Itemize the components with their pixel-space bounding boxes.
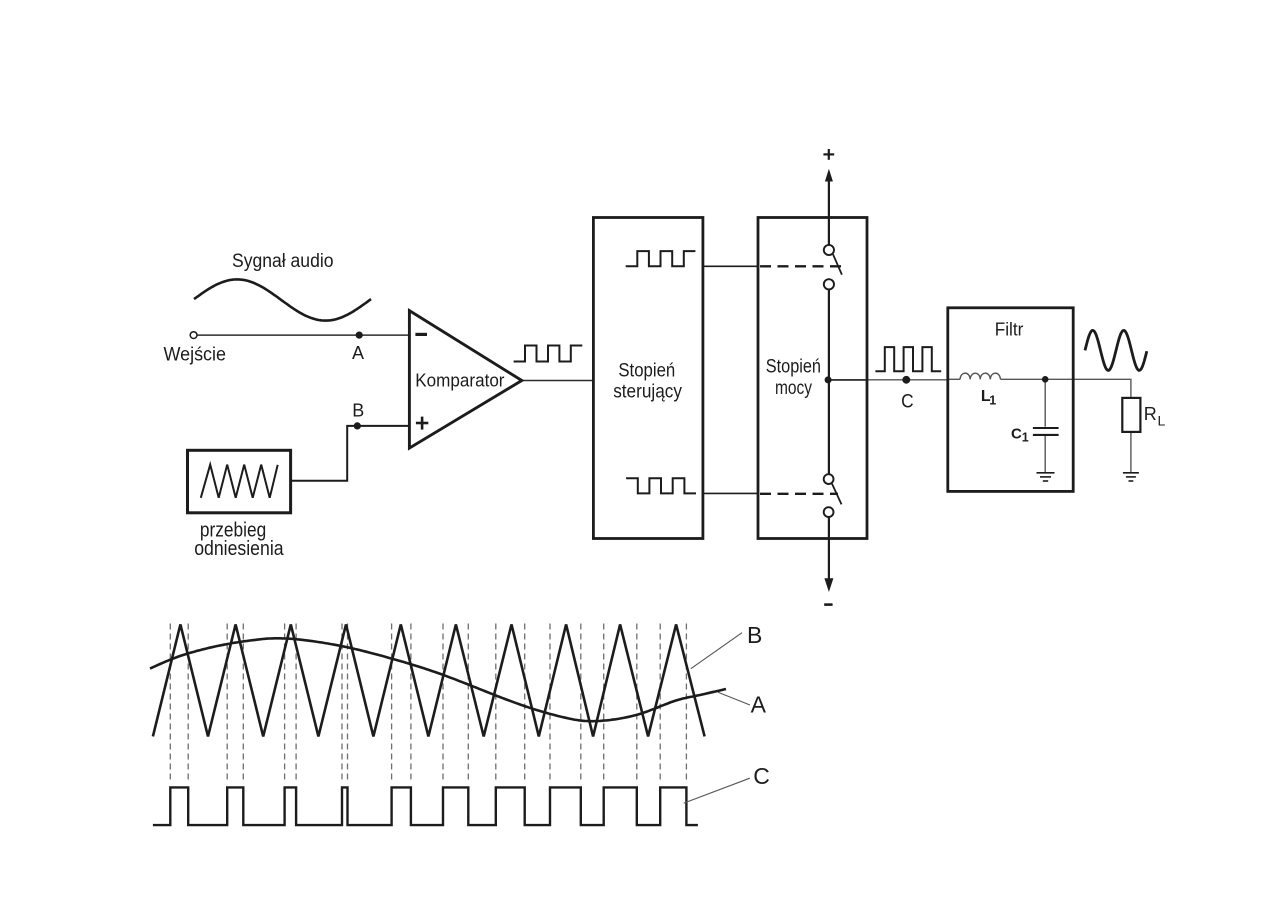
svg-text:mocy: mocy bbox=[775, 378, 812, 399]
svg-text:A: A bbox=[751, 692, 767, 718]
svg-text:C: C bbox=[901, 391, 914, 412]
svg-text:1: 1 bbox=[1022, 431, 1029, 445]
svg-text:1: 1 bbox=[989, 393, 996, 407]
svg-text:L: L bbox=[1158, 413, 1166, 429]
svg-text:B: B bbox=[747, 622, 762, 648]
svg-text:Sygnał audio: Sygnał audio bbox=[232, 251, 334, 272]
svg-text:Stopień: Stopień bbox=[766, 357, 821, 378]
svg-text:Komparator: Komparator bbox=[415, 371, 504, 391]
svg-text:C: C bbox=[1011, 426, 1022, 443]
svg-text:A: A bbox=[352, 343, 364, 363]
svg-text:Wejście: Wejście bbox=[164, 344, 227, 365]
svg-text:sterujący: sterujący bbox=[613, 381, 682, 402]
svg-text:odniesienia: odniesienia bbox=[194, 538, 284, 560]
svg-text:Stopień: Stopień bbox=[618, 360, 675, 381]
svg-text:C: C bbox=[753, 763, 770, 789]
svg-text:R: R bbox=[1144, 404, 1157, 424]
svg-text:B: B bbox=[352, 400, 364, 420]
svg-text:Filtr: Filtr bbox=[995, 320, 1024, 340]
